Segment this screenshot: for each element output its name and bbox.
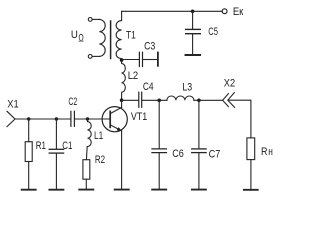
capacitor C2 (71, 111, 75, 126)
node C7 tap (197, 99, 201, 103)
transistor VT1 (102, 107, 127, 132)
capacitor C1 (49, 149, 63, 153)
transformer T1 primary (99, 19, 105, 56)
svg-text:R1: R1 (36, 140, 46, 152)
wire C3 left lead (122, 59, 139, 61)
wire emitter to ground (121, 131, 123, 189)
wire collector to C4 (122, 99, 139, 101)
svg-text:L3: L3 (182, 81, 192, 93)
svg-text:X2: X2 (224, 78, 235, 90)
ground C1 (49, 189, 63, 191)
wire C2 to base (75, 118, 110, 120)
inductor L1 (88, 119, 92, 147)
wire C5 top lead (192, 11, 194, 29)
ground Rn (244, 189, 258, 191)
inductor L2 (122, 60, 126, 100)
ground C7 (192, 189, 206, 191)
svg-text:T1: T1 (126, 30, 136, 42)
wire C6 top lead (158, 100, 160, 148)
wire generator top (92, 18, 99, 20)
resistor R1 (25, 142, 32, 162)
wire R2 bottom lead (85, 179, 87, 189)
ground R2 (79, 189, 93, 191)
wire top rail (122, 10, 223, 12)
svg-text:C5: C5 (208, 26, 218, 38)
connector X1 (7, 111, 15, 126)
wire C7 bottom lead (198, 153, 200, 189)
node C5 tap (191, 10, 195, 14)
wire R1 top lead (28, 119, 30, 142)
ground emitter (115, 189, 129, 191)
svg-text:C4: C4 (143, 81, 154, 93)
wire C1 bottom lead (55, 154, 57, 189)
svg-text:R2: R2 (95, 154, 105, 166)
node R1 tap (27, 117, 30, 120)
ground C5 (186, 54, 201, 56)
wire generator bottom (92, 55, 99, 57)
transformer T1 secondary (116, 11, 122, 60)
svg-text:C1: C1 (62, 140, 72, 152)
transformer T1 core (110, 21, 112, 59)
wire Rn bottom lead (250, 160, 252, 189)
wire C1 top lead (55, 119, 57, 149)
wire L3 to X2 (194, 99, 223, 101)
svg-text:L1: L1 (94, 130, 103, 142)
ground C3 (157, 53, 159, 66)
node C1 tap (55, 117, 58, 120)
node L1 tap (86, 117, 89, 120)
svg-text:C7: C7 (209, 149, 221, 161)
svg-text:U: U (71, 29, 78, 41)
svg-text:VT1: VT1 (131, 111, 147, 123)
wire C7 top lead (198, 100, 200, 148)
node collector (120, 98, 124, 102)
svg-text:X1: X1 (7, 99, 18, 111)
ground R1 (22, 189, 36, 191)
svg-text:Ω: Ω (78, 32, 83, 44)
svg-text:н: н (268, 146, 273, 158)
resistor R2 (83, 160, 90, 180)
capacitor C6 (152, 149, 166, 153)
svg-text:C2: C2 (68, 96, 77, 108)
wire L1 to R2 (85, 147, 88, 160)
wire input rail (15, 118, 70, 120)
terminal U generator bottom (88, 55, 92, 59)
terminal U generator top (88, 18, 92, 22)
wire C6 bottom lead (158, 153, 160, 189)
ground C6 (152, 189, 166, 191)
svg-text:R: R (261, 146, 268, 158)
wire C5 bottom lead (192, 34, 194, 54)
node L2 top / secondary bottom (120, 58, 124, 62)
wire C3 right lead (143, 59, 157, 61)
capacitor C4 (139, 92, 142, 107)
capacitor C7 (192, 149, 206, 153)
resistor Rn (247, 138, 255, 160)
capacitor C5 (186, 29, 201, 33)
svg-text:L2: L2 (128, 70, 139, 82)
inductor L3 (167, 96, 194, 100)
capacitor C3 (139, 52, 142, 66)
connector X2 (223, 94, 229, 107)
svg-text:C6: C6 (172, 148, 184, 160)
node C6 tap (157, 99, 161, 103)
wire C4 to L3 (142, 99, 167, 101)
svg-text:Ек: Ек (233, 6, 244, 18)
wire R1 bottom lead (28, 162, 30, 189)
svg-text:C3: C3 (144, 41, 155, 53)
terminal Ek (222, 9, 227, 14)
wire X2 to corner (228, 100, 251, 138)
